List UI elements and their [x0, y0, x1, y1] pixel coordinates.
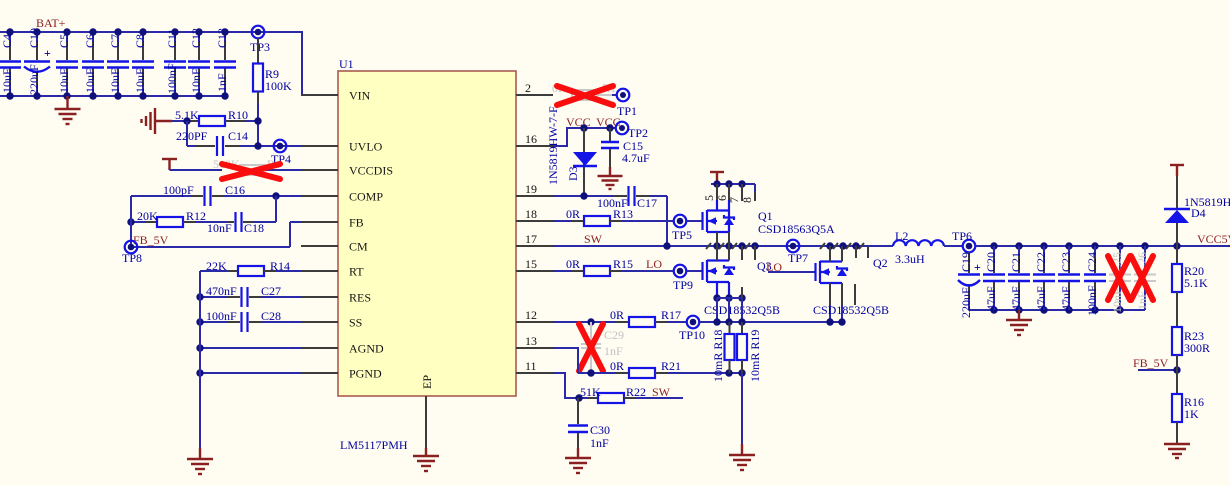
net FB_5V label [133, 233, 169, 247]
svg-text:3.3uH: 3.3uH [895, 252, 925, 266]
svg-text:2: 2 [525, 81, 531, 95]
svg-text:R14: R14 [270, 259, 290, 273]
resistor R23 300R [1172, 292, 1210, 355]
pin 11 stub [516, 359, 553, 373]
svg-text:470nF: 470nF [206, 284, 237, 298]
svg-text:0R: 0R [566, 207, 580, 221]
capacitor C23 47uF [1058, 246, 1080, 311]
svg-text:220uF: 220uF [959, 287, 973, 318]
svg-text:C5: C5 [57, 34, 71, 48]
svg-text:15: 15 [525, 257, 537, 271]
pin 13 stub [516, 334, 553, 348]
net VCC labels [566, 115, 621, 129]
transistor Q1 CSD18563Q5A [703, 200, 836, 246]
svg-text:VCCDIS: VCCDIS [349, 164, 393, 178]
pin 12 stub [516, 308, 553, 322]
capacitor C12 10nF [188, 28, 210, 100]
resistor 510K (not fitted, crossed) [213, 157, 281, 175]
diode D4 1N5819H [1164, 176, 1230, 246]
svg-text:C17: C17 [637, 196, 657, 210]
pin 2 stub [516, 81, 553, 95]
wire pin16 to VCC rail [553, 128, 616, 146]
svg-text:100K: 100K [265, 79, 292, 93]
wire TP5 to Q1 gate [687, 220, 703, 222]
testpoint TP6 [952, 229, 975, 252]
pin VCCDIS [301, 164, 393, 178]
ground C30 [565, 448, 591, 473]
red X over C26 [1131, 256, 1153, 300]
svg-text:10uF: 10uF [57, 68, 71, 93]
svg-text:11: 11 [525, 359, 537, 373]
svg-text:5.1K: 5.1K [1184, 276, 1208, 290]
svg-text:5: 5 [702, 195, 716, 201]
svg-text:220PF: 220PF [176, 129, 208, 143]
testpoint TP7 [787, 240, 808, 265]
svg-text:AGND: AGND [349, 342, 384, 356]
capacitor C5 10uF [56, 28, 78, 99]
svg-text:100pF: 100pF [163, 183, 194, 197]
pin 18 stub [516, 207, 553, 221]
svg-text:10uF: 10uF [83, 68, 97, 93]
resistor R12 20K [127, 209, 232, 227]
svg-text:SW: SW [584, 232, 603, 246]
svg-text:17: 17 [525, 232, 537, 246]
svg-text:LO: LO [646, 257, 662, 271]
svg-text:C20: C20 [984, 252, 998, 272]
svg-text:C16: C16 [225, 183, 245, 197]
capacitor C21 47uF [1008, 246, 1030, 311]
svg-text:300R: 300R [1184, 341, 1210, 355]
resistor R18 10mR [711, 322, 735, 382]
svg-text:8: 8 [740, 197, 754, 203]
red X over C29 [579, 324, 603, 371]
svg-text:4.7uF: 4.7uF [622, 151, 650, 165]
wire left rail RT..PGND [199, 271, 201, 373]
svg-text:C22: C22 [1034, 252, 1048, 272]
pin UVLO [301, 140, 383, 154]
capacitor C6 10uF [82, 28, 104, 99]
red X over 510K [222, 164, 280, 179]
svg-text:D3: D3 [566, 166, 580, 181]
svg-text:UVLO: UVLO [349, 140, 383, 154]
wire Q2 gate [768, 271, 815, 273]
svg-text:R17: R17 [661, 308, 681, 322]
svg-text:0R: 0R [610, 359, 624, 373]
svg-text:12: 12 [525, 308, 537, 322]
svg-text:C30: C30 [590, 423, 610, 437]
svg-text:RES: RES [349, 291, 371, 305]
capacitor C27 470nF [196, 284, 301, 307]
wire sense line TP10 to Q2 [700, 318, 846, 325]
testpoint TP9 [673, 265, 693, 292]
svg-text:TP6: TP6 [952, 229, 972, 243]
svg-text:10uF: 10uF [0, 68, 14, 93]
resistor R17 0R [553, 308, 686, 327]
diode D3 1N5819HW-7-F [546, 106, 597, 196]
capacitor C24 100nF [1084, 246, 1106, 316]
svg-text:FB: FB [349, 216, 364, 230]
svg-text:220uF: 220uF [27, 64, 41, 95]
svg-text:C14: C14 [228, 129, 248, 143]
testpoint TP1 [612, 89, 637, 118]
svg-text:TP8: TP8 [122, 251, 142, 265]
testpoint TP2 [616, 122, 648, 140]
wire R10 junction down to C14 line [186, 121, 188, 146]
svg-text:D4: D4 [1191, 206, 1206, 220]
pin CM [301, 240, 368, 254]
pin COMP [301, 190, 383, 204]
svg-text:47uF: 47uF [1059, 286, 1073, 311]
svg-text:C7: C7 [108, 34, 122, 48]
svg-text:LM5117PMH: LM5117PMH [340, 438, 408, 452]
svg-text:R15: R15 [613, 257, 633, 271]
capacitor C25 (not fitted, crossed) [1109, 246, 1131, 313]
pin 15 stub [516, 257, 553, 271]
capacitor C10 220uF polarized [24, 28, 51, 100]
red X over C25 [1108, 256, 1130, 300]
wire Q1 drain rail pins 5 6 7 8 [702, 180, 755, 203]
testpoint TP4 [271, 140, 291, 166]
svg-text:SS: SS [349, 316, 362, 330]
capacitor C14 220PF [176, 129, 301, 156]
svg-text:C27: C27 [261, 284, 281, 298]
svg-text:22K: 22K [206, 259, 227, 273]
svg-text:COMP: COMP [349, 190, 383, 204]
svg-text:1K: 1K [1184, 407, 1199, 421]
capacitor C26 (not fitted, crossed) [1134, 246, 1156, 310]
svg-text:10mR R18: 10mR R18 [711, 330, 725, 382]
wire R18 R19 to ground [741, 373, 743, 444]
svg-text:EP: EP [420, 375, 434, 389]
capacitor C20 47uF [983, 246, 1005, 311]
svg-text:TP2: TP2 [628, 126, 648, 140]
svg-text:10nF: 10nF [189, 68, 203, 93]
svg-text:100nF: 100nF [165, 63, 179, 94]
wire C17 down to SW [666, 196, 668, 246]
svg-text:0R: 0R [566, 257, 580, 271]
svg-text:10uF: 10uF [133, 68, 147, 93]
net LO label [646, 257, 662, 271]
capacitor C15 4.7uF [601, 124, 650, 167]
resistor R10 5.1K [172, 108, 262, 126]
resistor R1 0R (not fitted, crossed) [552, 81, 616, 100]
svg-text:13: 13 [525, 334, 537, 348]
svg-text:R10: R10 [228, 108, 248, 122]
resistor R21 0R [578, 359, 746, 378]
svg-text:BAT+: BAT+ [36, 16, 66, 30]
wire TP9 to Q3 gate [687, 270, 703, 272]
svg-text:FB_5V: FB_5V [133, 233, 169, 247]
pin AGND [301, 342, 384, 356]
resistor R14 22K [200, 259, 301, 276]
svg-text:RT: RT [349, 265, 364, 279]
svg-text:L2: L2 [895, 229, 908, 243]
svg-text:51K: 51K [580, 385, 601, 399]
svg-text:SW: SW [652, 385, 671, 399]
svg-text:19: 19 [525, 182, 537, 196]
pin FB [302, 216, 364, 230]
ground C15 [598, 167, 623, 189]
wire output bottom rail [969, 306, 1145, 313]
svg-text:16: 16 [525, 132, 537, 146]
capacitor C4 10uF [0, 28, 21, 99]
svg-text:+: + [974, 260, 981, 274]
pin 19 stub [516, 182, 553, 196]
pin PGND [301, 367, 382, 381]
wire Q3 source junction row [713, 287, 745, 322]
svg-text:TP7: TP7 [788, 251, 808, 265]
svg-text:C4: C4 [0, 34, 14, 48]
svg-text:FB_5V: FB_5V [1133, 356, 1169, 370]
svg-text:+: + [44, 46, 51, 60]
svg-text:U1: U1 [339, 57, 354, 71]
ground input bank [55, 96, 81, 124]
svg-text:C24: C24 [1085, 252, 1099, 272]
resistor R22 51K [580, 385, 683, 403]
wire PGND down to ground [199, 373, 201, 448]
resistor R16 1K [1172, 355, 1204, 444]
svg-text:TP5: TP5 [672, 228, 692, 242]
capacitor C18 10nF [207, 212, 276, 235]
svg-text:CSD18563Q5A: CSD18563Q5A [758, 222, 835, 236]
pin VIN [301, 89, 371, 103]
svg-text:R21: R21 [661, 359, 681, 373]
wire pin11 to R22 row [553, 373, 598, 402]
svg-text:CM: CM [349, 240, 368, 254]
transistor Q2 CSD18532Q5B (low side right) [813, 246, 889, 322]
svg-text:Q1: Q1 [758, 209, 773, 223]
testpoint TP8 [122, 241, 142, 265]
svg-text:100nF: 100nF [206, 309, 237, 323]
svg-text:10uF: 10uF [108, 68, 122, 93]
resistor R15 0R [553, 257, 673, 276]
wire pin13 to R21 row [553, 348, 578, 373]
svg-text:C21: C21 [1009, 252, 1023, 272]
svg-text:TP9: TP9 [673, 278, 693, 292]
wire COMP junction down [275, 196, 277, 222]
power bar VCCDIS [162, 159, 177, 170]
svg-text:VCC5V: VCC5V [1197, 232, 1230, 246]
red X over R1 [557, 86, 613, 105]
capacitor C19 220uF polarized [958, 252, 981, 318]
svg-text:47uF: 47uF [1034, 286, 1048, 311]
testpoint TP3 [250, 26, 270, 54]
wire stubs on SW line [706, 243, 868, 260]
wire VCCDIS [170, 169, 302, 171]
svg-text:10nF: 10nF [207, 221, 232, 235]
svg-text:C18: C18 [244, 221, 264, 235]
svg-text:C29: C29 [604, 328, 624, 342]
pin 17 stub [516, 232, 553, 246]
svg-text:C19: C19 [959, 252, 973, 272]
svg-text:100nF: 100nF [1085, 285, 1099, 316]
ground PGND [187, 448, 213, 474]
capacitor C29 1nF (not fitted, crossed) [581, 322, 624, 373]
svg-text:C23: C23 [1059, 252, 1073, 272]
net LO label at Q2 gate [757, 259, 782, 274]
svg-text:C8: C8 [133, 34, 147, 48]
svg-text:R22: R22 [626, 385, 646, 399]
ground EP [413, 448, 439, 471]
resistor R19 10mR [737, 322, 762, 382]
op-amp U1 LM5117PMH body [338, 57, 516, 452]
svg-text:0R: 0R [610, 308, 624, 322]
wire SW node [553, 242, 893, 249]
testpoint TP5 [672, 215, 692, 242]
svg-text:1N5819HW-7-F: 1N5819HW-7-F [546, 106, 560, 185]
svg-text:10mR R19: 10mR R19 [748, 330, 762, 382]
ground left of R10 (rotated) [142, 108, 173, 134]
wire BAT+ top rail [0, 32, 302, 95]
capacitor C30 1nF [568, 398, 610, 450]
svg-text:47uF: 47uF [984, 286, 998, 311]
svg-text:1nF: 1nF [604, 344, 623, 358]
ground R16 [1164, 444, 1190, 458]
power bar D4 [1170, 165, 1184, 176]
wire AGND [196, 344, 301, 351]
capacitor C8 10uF [132, 28, 154, 99]
net VCC5V label [1197, 232, 1230, 246]
svg-text:VIN: VIN [349, 89, 371, 103]
testpoint TP10 [679, 316, 705, 342]
svg-text:47uF: 47uF [1009, 286, 1023, 311]
resistor R20 5.1K [1172, 246, 1208, 292]
svg-text:C6: C6 [83, 34, 97, 48]
capacitor C13 1nF [214, 28, 236, 100]
wire FB left vertical [131, 196, 302, 247]
capacitor C11 100nF [164, 28, 186, 99]
svg-text:TP10: TP10 [679, 328, 705, 342]
pin SS [301, 316, 362, 330]
ground R18 R19 [729, 444, 755, 470]
pin 16 stub [516, 132, 553, 146]
svg-text:CSD18532Q5B: CSD18532Q5B [813, 303, 889, 317]
svg-text:R12: R12 [186, 209, 206, 223]
svg-text:1nF: 1nF [215, 73, 229, 92]
capacitor C22 47uF [1033, 246, 1055, 311]
power bar Q1 drain [710, 172, 724, 184]
net SW label [584, 232, 603, 246]
pin EP [420, 375, 434, 448]
pin RT [301, 265, 364, 279]
inductor L2 3.3uH [893, 229, 963, 266]
capacitor C7 10uF [107, 28, 129, 99]
capacitor C28 100nF [196, 309, 301, 332]
svg-text:20K: 20K [137, 209, 158, 223]
resistor R9 100K [253, 38, 292, 146]
svg-text:R13: R13 [613, 207, 633, 221]
ground output bank [1006, 310, 1032, 335]
wire VCC5V top rail [975, 242, 1230, 249]
svg-text:C28: C28 [261, 309, 281, 323]
resistor R13 0R [553, 207, 673, 226]
pin RES [301, 291, 371, 305]
svg-text:TP3: TP3 [250, 40, 270, 54]
net BAT+ label [36, 16, 66, 30]
svg-text:1nF: 1nF [590, 436, 609, 450]
net FB_5V wire [1133, 356, 1181, 374]
wire input bottom rail [0, 95, 225, 97]
svg-text:18: 18 [525, 207, 537, 221]
net SW label at R22 [652, 385, 671, 399]
svg-text:Q2: Q2 [873, 256, 888, 270]
transistor Q3 CSD18532Q5B (low side left) [703, 246, 781, 317]
svg-text:PGND: PGND [349, 367, 382, 381]
wire PGND [196, 369, 301, 376]
capacitor C16 100pF [131, 183, 301, 206]
capacitor C17 100nF [553, 186, 667, 210]
